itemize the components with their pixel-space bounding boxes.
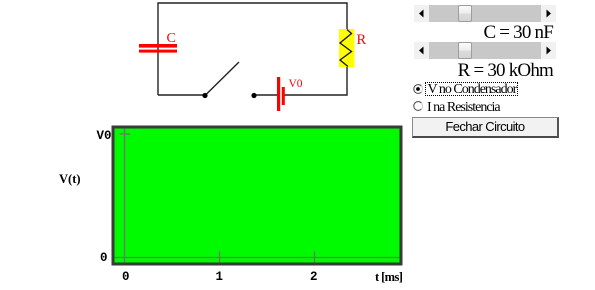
svg-text:R: R — [357, 32, 367, 48]
svg-text:V0: V0 — [289, 78, 303, 90]
svg-text:C: C — [167, 31, 176, 46]
